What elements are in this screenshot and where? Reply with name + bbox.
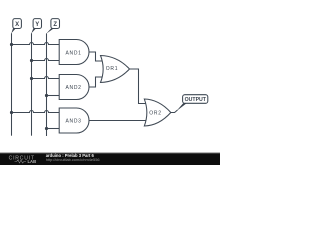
output flag OUTPUT [176, 95, 208, 112]
OR gate OR2 [144, 99, 171, 126]
AND gate AND1 [59, 40, 89, 65]
wire X to AND1 top input [12, 43, 60, 45]
svg-text:X: X [15, 22, 19, 28]
wire AND1 output to OR1 top input [89, 52, 102, 61]
svg-text:LAB: LAB [28, 159, 37, 164]
wire AND3 output to OR2 bottom input [89, 120, 146, 122]
wire X bus vertical [11, 33, 13, 136]
footer logo waveform [15, 160, 27, 163]
svg-text:AND3: AND3 [66, 118, 82, 124]
svg-text:OR1: OR1 [106, 66, 118, 72]
footer bar [0, 153, 220, 166]
input flag X [11, 19, 21, 34]
wire Y to AND1 bottom input [32, 59, 60, 61]
wire AND2 output to OR1 bottom input [89, 77, 102, 87]
junction dot X/AND3 [10, 111, 13, 114]
input flag Z [46, 19, 59, 34]
wire Y bus vertical [31, 33, 33, 136]
junction dot Y/AND1 [30, 59, 33, 62]
svg-text:Z: Z [53, 22, 57, 28]
svg-text:AND2: AND2 [66, 85, 82, 91]
junction dot Z/AND3 [45, 127, 48, 130]
svg-text:http://circuitlab.com/c/nm4e55: http://circuitlab.com/c/nm4e556 [46, 157, 100, 162]
wire Z bus vertical [46, 33, 48, 136]
wire Z to AND3 bottom input [47, 128, 60, 130]
svg-text:OUTPUT: OUTPUT [185, 97, 207, 103]
svg-text:OR2: OR2 [149, 110, 161, 116]
wire Y to AND2 top input [32, 77, 60, 79]
wire X to AND3 top input [12, 111, 60, 113]
svg-text:Y: Y [35, 22, 39, 28]
wire OR1 output to OR2 top input [130, 69, 147, 104]
input flag Y [31, 19, 41, 34]
svg-text:AND1: AND1 [66, 50, 82, 56]
junction dot X/AND1 [10, 43, 13, 46]
AND gate AND3 [59, 108, 89, 133]
AND gate AND2 [59, 75, 89, 100]
junction dot Z/AND2 [45, 94, 48, 97]
OR gate OR1 [101, 56, 130, 83]
junction dot Y/AND2 [30, 77, 33, 80]
wire Z to AND2 bottom input [47, 95, 60, 97]
wire OR2 output to OUTPUT flag [171, 110, 178, 113]
